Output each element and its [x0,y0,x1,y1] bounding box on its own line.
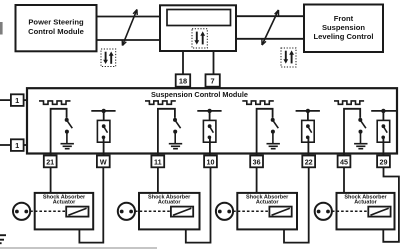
shock absorber actuator 4 box [337,193,395,230]
actuator 4 dashed link [332,210,368,212]
svg-text:36: 36 [253,157,261,166]
shock absorber actuator 1 box [35,193,93,230]
GROUP 3 switch S3 [271,118,279,144]
svg-text:W: W [100,157,107,166]
svg-text:Actuator: Actuator [354,199,377,205]
pin 1 upper [11,94,27,106]
actuator 1 motor M1 circle [13,203,30,220]
clipped ground symbol bottom-left [0,235,6,243]
pin 22 [302,156,315,168]
svg-text:11: 11 [154,157,162,166]
svg-text:Power Steering: Power Steering [28,17,84,26]
pin W [97,156,110,168]
svg-text:Actuator: Actuator [53,199,76,205]
GROUP 4 ground [354,144,367,149]
GROUP 4 driver: PWM symbol [334,101,364,104]
wire from U2 to pin 7 [213,51,215,74]
svg-text:Actuator: Actuator [158,199,181,205]
GROUP 4 driver bracket wire [344,109,360,155]
pin 21 [44,156,57,168]
wire left pair upper [97,16,161,18]
svg-text:7: 7 [211,77,215,86]
dashed two-way arrow symbol center [192,29,207,48]
svg-text:Suspension Control Module: Suspension Control Module [151,90,248,99]
GROUP 4 relay K4 [371,109,396,156]
power steering control module box U1 [16,5,97,51]
shock absorber actuator 3 box [237,193,297,230]
GROUP 1 driver: PWM symbol [39,101,71,104]
suspension control module box U4 [27,88,397,153]
pin 7 [206,74,220,86]
svg-text:1: 1 [15,141,19,150]
pin 45 [338,156,351,168]
svg-text:1: 1 [15,96,19,105]
wire to pin 1 lower [0,144,11,146]
dashed two-way arrow symbol right [281,48,296,67]
wire pin22 hook to actuator 3 bottom [284,167,309,242]
actuator 1 solenoid symbol [66,207,88,217]
bus double-arrow across left wires [122,10,137,46]
grey rule bottom [0,247,157,249]
GROUP 1 ground [61,144,74,149]
svg-text:Actuator: Actuator [256,199,279,205]
GROUP 3 relay K3 [296,109,320,156]
svg-text:45: 45 [340,157,348,166]
svg-text:10: 10 [207,157,215,166]
actuator 3 motor M3 circle [216,203,233,220]
actuator 2 solenoid symbol [171,207,193,217]
actuator 2 motor M2 circle [118,203,135,220]
center control unit box U2 [160,5,236,51]
wire left pair lower [97,39,161,41]
svg-text:Front: Front [334,14,354,23]
GROUP 3 driver bracket wire [257,109,273,155]
actuator 2 dashed link [135,210,171,212]
actuator 3 dashed link [233,210,269,212]
GROUP 2 switch S2 [173,118,181,144]
actuator 4 motor M4 circle [315,203,332,220]
GROUP 2 ground [169,144,182,149]
shock absorber actuator 2 box [139,193,200,230]
actuator 1 dashed link [30,210,66,212]
grey clipped bar at left edge [0,22,3,35]
GROUP 1 switch S1 [65,118,73,144]
svg-text:22: 22 [305,157,313,166]
bus double-arrow across right wires [262,10,279,45]
actuator 4 solenoid symbol [368,207,390,217]
pin 36 [250,156,263,168]
wire pin36 to actuator 3 [256,167,258,193]
svg-text:21: 21 [46,157,54,166]
svg-text:18: 18 [179,77,187,86]
svg-text:Control Module: Control Module [28,27,84,36]
pin 10 [204,156,217,168]
GROUP 1 relay K1 [91,109,115,156]
GROUP 3 driver: PWM symbol [242,101,273,104]
GROUP 3 ground [267,144,280,149]
pin 29 [377,156,390,168]
wire pin45 to actuator 4 [343,167,345,193]
svg-text:Suspension: Suspension [322,23,365,32]
dashed two-way arrow symbol left [101,49,116,67]
pin 11 [151,156,164,168]
wire to pin 1 upper [0,99,11,101]
wire right pair lower [236,38,304,40]
GROUP 2 relay K2 [197,109,221,156]
wire pin11 to actuator 2 [157,167,159,193]
wire pin29 detour to actuator 4 bottom [383,167,399,242]
actuator 3 solenoid symbol [269,207,291,217]
wire pin10 hook to actuator 2 bottom [186,167,211,242]
GROUP 4 switch S4 [358,118,366,144]
pin 18 [176,74,191,86]
wire right pair upper [236,15,304,17]
front suspension leveling control box U3 [304,5,383,53]
wire pin21 to actuator 1 [50,167,52,193]
svg-text:29: 29 [380,157,388,166]
GROUP 2 driver: PWM symbol [145,101,176,104]
pin 1 lower [11,139,27,151]
GROUP 1 driver bracket wire [51,109,67,155]
wire from U2 to pin 18 [182,51,184,74]
wire pin W hook to actuator 1 bottom [79,167,103,242]
GROUP 2 driver bracket wire [158,109,175,155]
svg-text:Leveling Control: Leveling Control [314,32,374,41]
